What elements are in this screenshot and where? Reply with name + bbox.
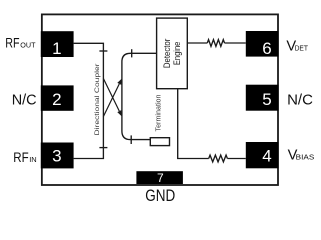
svg-text:5: 5 xyxy=(262,90,271,109)
wire detector output xyxy=(187,42,207,44)
package outline xyxy=(42,14,278,185)
pin 2 pad xyxy=(41,85,74,110)
svg-text:IN: IN xyxy=(29,155,37,164)
svg-text:3: 3 xyxy=(52,147,61,166)
svg-text:Engine: Engine xyxy=(172,42,182,66)
svg-text:Detector: Detector xyxy=(162,39,172,69)
coupled line tick top xyxy=(131,49,133,57)
termination resistor xyxy=(150,138,169,146)
coupled line tick bottom xyxy=(130,135,132,144)
svg-text:RF: RF xyxy=(5,35,19,51)
svg-text:N/C: N/C xyxy=(287,92,313,109)
pin 4 pad xyxy=(246,142,279,168)
resistor R1 xyxy=(207,40,224,47)
wire detector to R2 xyxy=(178,89,209,159)
svg-text:6: 6 xyxy=(262,39,271,58)
svg-text:GND: GND xyxy=(145,187,175,205)
wire R1 to pin 6 xyxy=(225,42,246,44)
wire coupler coupled line xyxy=(122,53,157,139)
coupler port tick bottom xyxy=(99,147,107,149)
svg-text:OUT: OUT xyxy=(20,41,36,50)
wire R2 to pin 4 xyxy=(227,158,245,160)
svg-text:2: 2 xyxy=(52,90,61,109)
svg-text:Directional Coupler: Directional Coupler xyxy=(94,63,101,136)
wire coupler main line pin1 to pin3 xyxy=(74,43,104,158)
svg-text:N/C: N/C xyxy=(12,91,37,108)
svg-text:RF: RF xyxy=(13,149,28,165)
detector engine block U1 xyxy=(157,18,188,89)
pin 7 pad xyxy=(136,171,183,185)
svg-text:BIAS: BIAS xyxy=(296,153,315,162)
pin 1 pad xyxy=(41,31,74,58)
svg-text:1: 1 xyxy=(52,39,61,58)
svg-text:4: 4 xyxy=(262,147,271,166)
coupler port tick top xyxy=(99,50,107,52)
coupler arrow down-right xyxy=(103,79,122,117)
svg-text:7: 7 xyxy=(157,171,164,185)
coupler arrow up-right xyxy=(103,79,122,117)
pin 5 pad xyxy=(246,85,279,111)
resistor R2 xyxy=(209,155,228,162)
pin 6 pad xyxy=(246,31,279,58)
pin 3 pad xyxy=(41,143,74,169)
svg-text:Termination: Termination xyxy=(156,94,163,131)
svg-text:DET: DET xyxy=(295,43,309,52)
label Detector Engine xyxy=(162,39,182,69)
